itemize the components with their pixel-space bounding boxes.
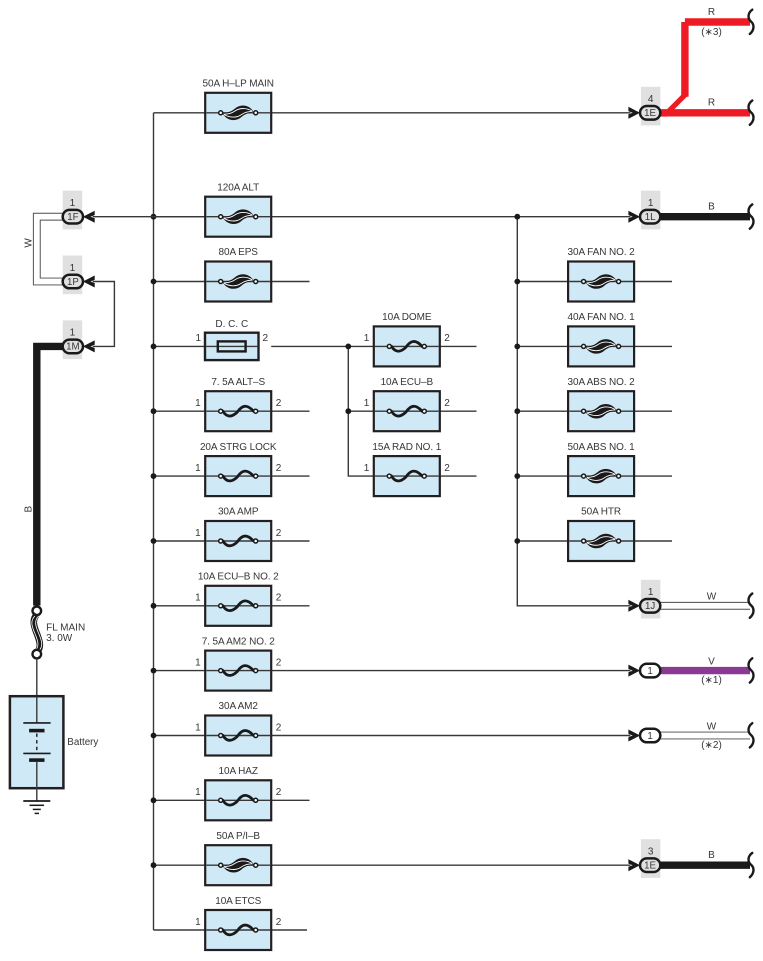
svg-text:1: 1 <box>648 587 654 598</box>
svg-text:10A ETCS: 10A ETCS <box>215 896 261 907</box>
svg-text:1: 1 <box>70 328 76 339</box>
svg-text:30A FAN NO. 2: 30A FAN NO. 2 <box>568 247 636 258</box>
svg-text:7. 5A AM2 NO. 2: 7. 5A AM2 NO. 2 <box>202 636 276 647</box>
svg-text:1: 1 <box>648 198 654 209</box>
svg-text:1E: 1E <box>644 861 656 872</box>
svg-text:1: 1 <box>195 722 201 733</box>
svg-text:1: 1 <box>647 731 652 742</box>
svg-text:2: 2 <box>444 463 450 474</box>
svg-text:1: 1 <box>195 333 201 344</box>
svg-text:R: R <box>708 7 715 18</box>
svg-text:2: 2 <box>276 722 282 733</box>
svg-text:1F: 1F <box>67 212 78 223</box>
svg-text:B: B <box>708 850 715 861</box>
svg-text:7. 5A ALT–S: 7. 5A ALT–S <box>211 377 265 388</box>
svg-text:1: 1 <box>195 657 201 668</box>
svg-text:120A ALT: 120A ALT <box>217 182 259 193</box>
svg-text:B: B <box>23 506 34 513</box>
svg-text:1: 1 <box>70 198 76 209</box>
svg-text:30A AM2: 30A AM2 <box>219 701 259 712</box>
svg-text:D. C. C: D. C. C <box>215 319 248 330</box>
svg-text:50A H–LP MAIN: 50A H–LP MAIN <box>203 79 274 90</box>
svg-text:2: 2 <box>276 787 282 798</box>
svg-text:2: 2 <box>444 398 450 409</box>
svg-text:1: 1 <box>364 398 370 409</box>
svg-text:50A P/I–B: 50A P/I–B <box>216 831 260 842</box>
svg-text:3: 3 <box>648 847 654 858</box>
svg-text:2: 2 <box>276 593 282 604</box>
svg-text:10A HAZ: 10A HAZ <box>219 766 258 777</box>
svg-text:V: V <box>708 656 715 667</box>
svg-text:1L: 1L <box>645 212 656 223</box>
svg-text:1M: 1M <box>66 342 79 353</box>
svg-text:W: W <box>23 238 34 248</box>
svg-text:20A STRG LOCK: 20A STRG LOCK <box>200 442 277 453</box>
svg-text:3. 0W: 3. 0W <box>46 633 73 644</box>
svg-text:W: W <box>707 721 717 732</box>
svg-text:1E: 1E <box>644 108 656 119</box>
svg-text:1: 1 <box>195 463 201 474</box>
svg-text:FL MAIN: FL MAIN <box>46 622 85 633</box>
svg-text:R: R <box>708 98 715 109</box>
svg-text:1: 1 <box>364 463 370 474</box>
svg-text:1: 1 <box>70 263 76 274</box>
svg-text:Battery: Battery <box>67 737 98 748</box>
svg-text:15A RAD NO. 1: 15A RAD NO. 1 <box>372 442 441 453</box>
svg-text:1: 1 <box>195 398 201 409</box>
svg-text:2: 2 <box>276 528 282 539</box>
svg-text:1: 1 <box>195 787 201 798</box>
svg-text:2: 2 <box>276 463 282 474</box>
svg-text:1: 1 <box>195 917 201 928</box>
svg-text:80A EPS: 80A EPS <box>219 247 259 258</box>
svg-text:(∗3): (∗3) <box>701 27 722 38</box>
svg-text:4: 4 <box>648 94 654 105</box>
svg-text:2: 2 <box>276 657 282 668</box>
svg-text:50A ABS NO. 1: 50A ABS NO. 1 <box>568 442 636 453</box>
svg-text:W: W <box>707 592 717 603</box>
svg-text:1P: 1P <box>67 277 79 288</box>
svg-text:2: 2 <box>263 333 269 344</box>
svg-text:B: B <box>708 202 715 213</box>
svg-text:1: 1 <box>195 528 201 539</box>
svg-text:30A ABS NO. 2: 30A ABS NO. 2 <box>568 377 636 388</box>
svg-text:10A ECU–B NO. 2: 10A ECU–B NO. 2 <box>198 572 279 583</box>
svg-text:1: 1 <box>647 666 652 677</box>
svg-text:30A AMP: 30A AMP <box>218 507 259 518</box>
svg-text:1: 1 <box>195 593 201 604</box>
svg-text:50A HTR: 50A HTR <box>581 507 621 518</box>
svg-text:2: 2 <box>276 398 282 409</box>
svg-text:2: 2 <box>444 333 450 344</box>
svg-text:10A DOME: 10A DOME <box>382 312 432 323</box>
svg-text:2: 2 <box>276 917 282 928</box>
svg-text:(∗1): (∗1) <box>701 675 722 686</box>
svg-text:1: 1 <box>364 333 370 344</box>
svg-text:40A FAN NO. 1: 40A FAN NO. 1 <box>568 312 636 323</box>
svg-text:10A ECU–B: 10A ECU–B <box>381 377 434 388</box>
svg-text:1J: 1J <box>645 601 655 612</box>
svg-text:(∗2): (∗2) <box>701 740 722 751</box>
